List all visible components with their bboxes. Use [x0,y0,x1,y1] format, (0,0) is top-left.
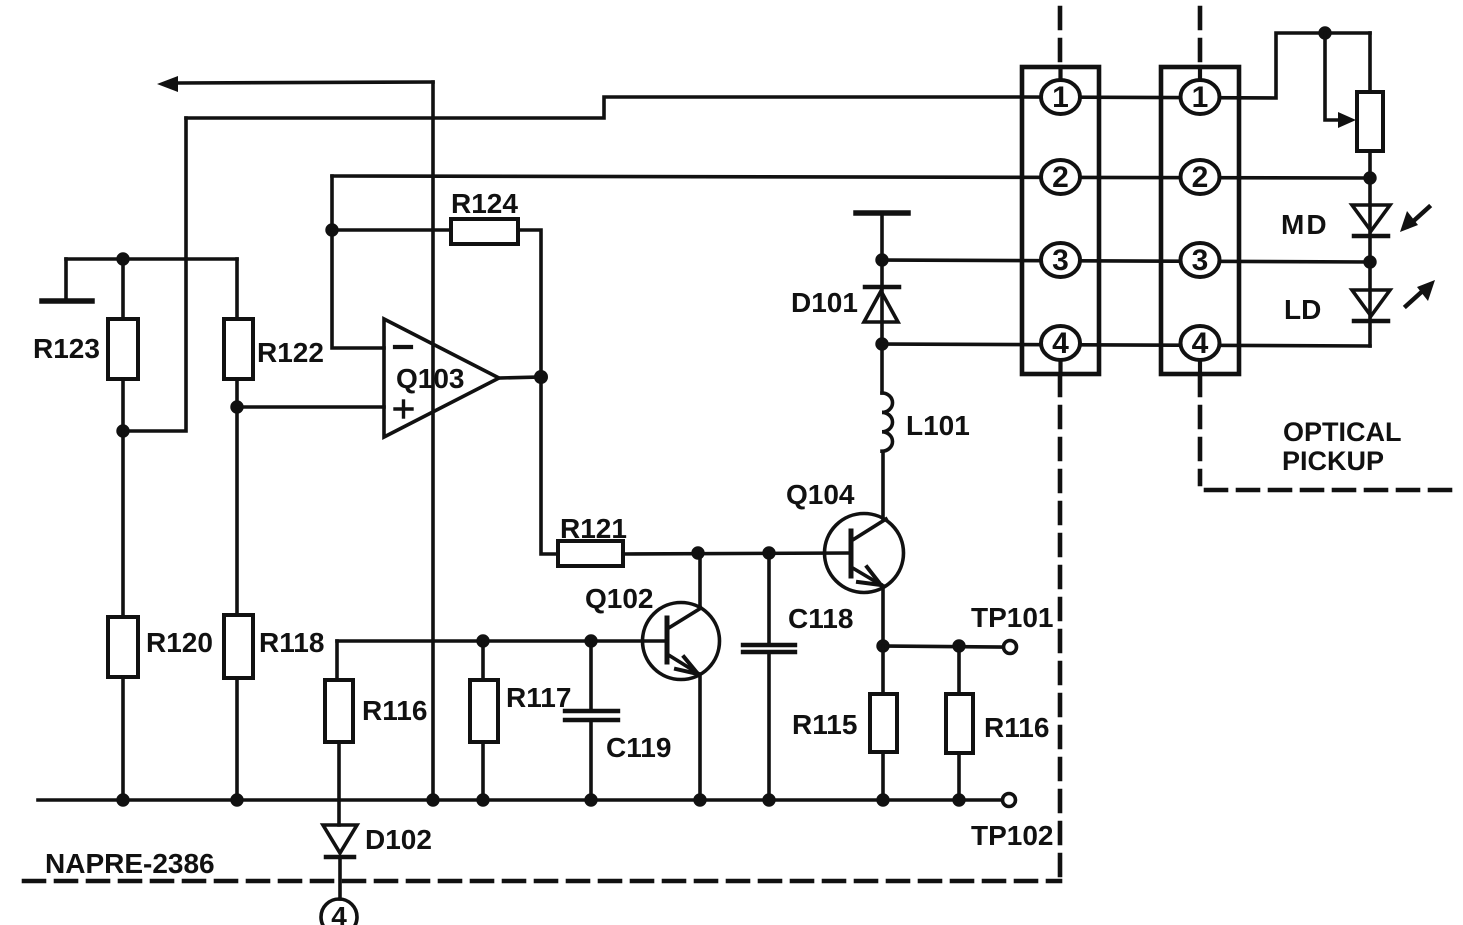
pin 4 of J2 [1181,326,1220,360]
svg-text:D101: D101 [791,287,858,318]
svg-text:Q102: Q102 [585,583,654,614]
light arrow out of LD [1406,280,1435,306]
wire: R121 to Q104 base [623,553,849,554]
svg-text:R121: R121 [560,513,627,544]
svg-text:R115: R115 [792,709,857,740]
svg-text:R116: R116 [984,712,1049,743]
wire: R115 column [881,646,885,694]
node: junction below R123 [116,424,129,437]
wire: pot top to pin1 net [1368,33,1372,92]
wire: Q102 base line [337,639,667,643]
svg-text:R123: R123 [33,333,100,364]
op-amp U Q103 [384,319,499,437]
test point TP102 [971,794,1054,852]
wire: output down to R121 [541,377,558,554]
test point TP101 [971,602,1054,654]
svg-text:TP101: TP101 [971,602,1054,633]
wire: to op-amp + input [237,405,384,409]
pin 3 of J2 [1181,243,1220,277]
svg-text:C118: C118 [788,603,853,634]
laser diode LD [1284,290,1390,325]
ground [42,259,92,301]
wire: R123 column [121,259,125,319]
wire: R122 to R118 [235,379,239,615]
wire: bottom ground rail [38,798,1002,802]
node: junction R117 top [476,634,489,647]
svg-text:R117: R117 [506,682,571,713]
wire: pin2 net horizontal [332,176,1370,178]
svg-text:TP102: TP102 [971,820,1054,851]
node: junction C119 top [584,634,597,647]
svg-text:4: 4 [1052,327,1069,360]
svg-text:3: 3 [1192,244,1209,277]
svg-text:2: 2 [1192,161,1209,194]
node: junction potentiometer wiper tap [1318,26,1331,39]
svg-text:R116: R116 [362,695,427,726]
wire: wiper branch with arrow [1325,33,1356,128]
node: junction pin4 / D101 anode [875,337,888,350]
pin 3 of J1 [1041,243,1080,277]
pin 2 of J2 [1181,160,1220,194]
resistor R115 [870,694,897,752]
resistor R117 [470,680,498,742]
svg-text:4: 4 [331,901,347,925]
wire: TP101 line [883,646,1002,647]
wire: Q104 collector up to L101 [881,452,885,519]
svg-text:4: 4 [1192,327,1209,360]
node: rail junction main bus [426,793,439,806]
wire: inverting input branch vertical [332,176,384,348]
resistor R116 (right) [946,694,973,753]
wire: bar to D101 node [880,213,884,260]
wire: C119 top stub [589,641,593,709]
node: junction Q102 collector [691,546,704,559]
node: rail junction C119 [584,793,597,806]
wire: pin4 node to L101 [880,344,884,393]
label OPTICAL PICKUP [1282,417,1402,476]
wire: R118 to rail [235,678,239,800]
wire: MD cathode column [1368,178,1372,262]
power rail bar above D101 [856,210,908,216]
wire: R115 to rail [881,752,885,800]
node: rail junction R117 [476,793,489,806]
potentiometer (laser power adjust) [1357,92,1383,151]
inductor L101 [882,393,970,451]
node: junction R116 top right [952,639,965,652]
pin number 4 (external) [321,899,357,925]
svg-text:D102: D102 [365,824,432,855]
transistor Q104 [786,479,904,593]
resistor R122 [224,319,253,379]
wire: C119 to rail [589,722,593,800]
svg-text:MD: MD [1281,209,1329,240]
svg-text:R118: R118 [259,627,324,658]
wire: vertical from pin1-net down to R123 bottom jog [123,118,186,431]
resistor R124 [451,219,518,244]
wire: R116 down through rail to D102 [337,742,341,825]
NAPRE-2386 board boundary (dashed) [24,8,1060,881]
svg-text:LD: LD [1284,294,1321,325]
wire: R117 to rail [481,742,485,800]
wire: C118 to rail [767,654,771,800]
diode D101 [791,260,899,344]
svg-text:2: 2 [1052,161,1069,194]
light arrow into MD [1400,207,1429,232]
node: rail junction R120 [116,793,129,806]
node: junction pin2 / pot [1363,171,1376,184]
pin 1 of J2 [1181,80,1220,114]
svg-text:NAPRE-2386: NAPRE-2386 [45,848,215,879]
capacitor C118 [743,603,853,652]
capacitor C119 [565,711,671,763]
wire: Q104 emitter down [881,586,885,646]
node: rail junction C118 [762,793,775,806]
wire: pin3 net [882,260,1370,262]
wire: C118 top stub [767,553,771,643]
node: rail junction R118 [230,793,243,806]
node: junction at op-amp + input tap [230,400,243,413]
wire: R122 column top [235,259,239,319]
svg-text:3: 3 [1052,244,1069,277]
wire: R117 column [481,641,485,680]
OPTICAL PICKUP boundary (dashed) [1200,8,1456,490]
resistor R118 [224,615,253,678]
pin 1 of J1 [1041,80,1080,114]
pin 2 of J1 [1041,160,1080,194]
wire: base-line corner down to R116 [335,641,339,680]
wire: R116 to rail [957,753,961,800]
node: junction at R124 tap [325,223,338,236]
svg-text:1: 1 [1192,81,1209,114]
svg-text:PICKUP: PICKUP [1282,446,1384,476]
node: op-amp output junction [534,370,548,384]
resistor R116 [325,680,353,742]
wire: main vertical bus x=433 from arrow down to ground rail [431,82,435,800]
connector J2 [1161,67,1239,374]
wire: Q102 emitter to rail [698,674,702,800]
connector J1 [1022,67,1099,374]
node: junction emitter / TP101 [876,639,889,652]
diode D102 [323,824,432,857]
node: rail junction Q102 emitter [693,793,706,806]
wire: R116 (right) column [957,646,961,694]
svg-text:1: 1 [1052,81,1069,114]
node: junction pin3 / D101 cathode [875,253,888,266]
wire: R123 to R120 [121,379,125,617]
wire: ground net horizontal [66,257,237,261]
resistor R123 [108,319,138,379]
node: junction pin3 / MD [1363,255,1376,268]
svg-text:L101: L101 [906,410,970,441]
resistor R120 [108,617,138,677]
wire: pot bottom to pin2 net [1368,151,1372,178]
wire: pin4 net [882,344,1370,346]
resistor R121 [558,541,623,566]
svg-text:R120: R120 [146,627,213,658]
node: rail junction R115 [876,793,889,806]
wire: pin1 net through connectors to optical pickup [1022,33,1370,98]
node: rail junction R116 [952,793,965,806]
transistor Q102 [585,583,720,680]
node: junction C118 top [762,546,775,559]
photodiode MD [1281,205,1390,240]
wire: pin1 net left segment with jog [186,97,1022,118]
pin 4 of J1 [1041,326,1080,360]
node: junction at top of R123 column [116,252,129,265]
svg-text:Q103: Q103 [396,363,465,394]
wire: R120 to rail [121,677,125,800]
svg-text:R122: R122 [257,337,324,368]
wire: R124 to op-amp output column [518,230,541,377]
wire: top-left arrow line (op-amp feedback branch) [157,76,433,92]
wire: node to R124 [332,228,451,232]
svg-text:C119: C119 [606,732,671,763]
svg-text:Q104: Q104 [786,479,855,510]
svg-text:OPTICAL: OPTICAL [1283,417,1402,447]
wire: LD column [1368,262,1372,346]
wire: output apex to node [499,377,541,378]
svg-text:R124: R124 [451,188,518,219]
wire: Q102 collector vertical [698,553,702,607]
wire: D102 to pin4 circle [338,857,342,899]
